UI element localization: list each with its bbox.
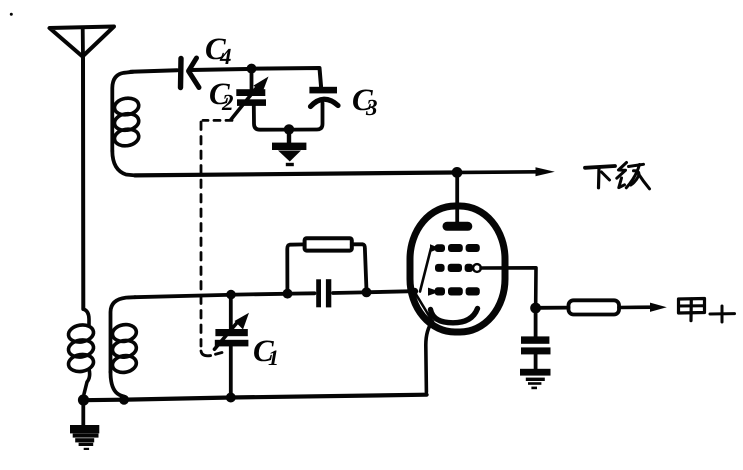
wire node I to resistor — [541, 306, 569, 310]
antenna — [50, 27, 115, 59]
grid row 2 dashes — [435, 264, 473, 272]
label 甲+ supply — [679, 299, 735, 323]
node C junction dot C1 top — [226, 290, 236, 300]
node H junction dot C1 bottom — [226, 393, 236, 403]
node tube grid entry dot — [411, 288, 418, 295]
wire grid line from coil to tube — [135, 295, 227, 297]
ground G2 — [272, 133, 306, 166]
grid row 1 dashes — [435, 244, 480, 252]
node A junction dot — [247, 64, 257, 74]
grid row 3 dashes — [435, 287, 480, 295]
label C4 — [206, 38, 231, 64]
wire L1 top to C4 — [131, 70, 177, 72]
speck top-left — [10, 13, 13, 16]
dashed gang link C2 to C1 — [201, 120, 232, 355]
wire plate line to next stage — [135, 173, 452, 176]
label C1 — [254, 340, 277, 365]
vacuum tube V1 — [410, 172, 505, 392]
plate lead — [455, 172, 459, 223]
node F junction dot bus left — [78, 394, 89, 405]
inductor L1 tickler coil — [112, 72, 140, 176]
wire resistor to arrow — [619, 305, 652, 309]
ground G4 — [520, 369, 551, 389]
node I junction dot B+ — [530, 303, 541, 314]
capacitor C1 variable — [215, 297, 250, 394]
label C3 — [353, 89, 377, 115]
resistor Rg grid leak — [287, 238, 366, 289]
arrow to next stage — [536, 167, 555, 176]
capacitor C2 variable — [231, 69, 285, 130]
inductor L2 antenna coil — [67, 309, 95, 394]
cathode arc — [431, 309, 478, 323]
label C2 — [210, 83, 233, 110]
arrow to A+ supply — [650, 303, 667, 312]
wire node A to C3 top corner — [256, 68, 321, 86]
wire ground bus — [84, 395, 427, 401]
grid inner riser wire — [420, 248, 431, 291]
node D junction dot grid cap left — [283, 289, 293, 299]
node G junction dot L3 bottom — [119, 395, 129, 405]
node P junction dot plate — [452, 167, 463, 178]
node B junction dot C2/C3 bottom — [284, 124, 294, 134]
grid arrow row3 — [428, 288, 440, 296]
tube envelope — [410, 206, 505, 332]
resistor Rs screen dropper — [569, 300, 620, 314]
capacitor Cg grid capacitor — [316, 279, 331, 307]
label 下级 next stage — [585, 163, 650, 189]
ground G3 — [70, 400, 99, 450]
plate bar — [443, 222, 473, 231]
grid arrow row1 — [430, 244, 440, 252]
node E junction dot grid cap right — [362, 287, 372, 297]
capacitor C4 — [181, 58, 200, 88]
cathode lead — [426, 322, 433, 393]
inductor L3 secondary coil — [111, 297, 138, 396]
wire screen to B+ node — [481, 268, 536, 303]
capacitor Cb bypass — [521, 313, 551, 369]
wire C4 to node A — [191, 69, 247, 70]
capacitor C3 — [293, 86, 338, 130]
wire antenna down-lead — [81, 57, 85, 310]
grid row 2 circle terminal — [473, 264, 481, 272]
